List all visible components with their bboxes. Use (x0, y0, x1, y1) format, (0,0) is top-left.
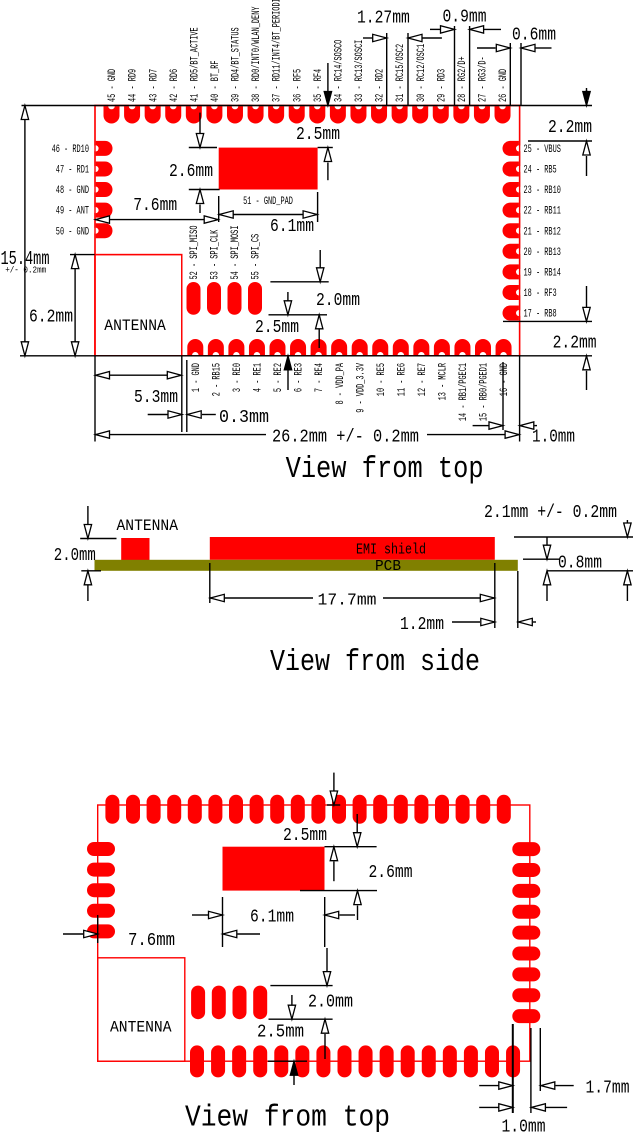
pad 39 top row (227, 106, 243, 123)
land pad bottom 4 view3 (253, 1045, 267, 1077)
antenna keepout box view1 (95, 255, 182, 356)
svg-text:2.0mm: 2.0mm (308, 992, 353, 1013)
land pad left 4 view3 (87, 904, 115, 918)
wire bottom edge line view1 (20, 355, 592, 357)
pad 52 SPI (187, 282, 201, 315)
land pad bottom 5 view3 (274, 1045, 288, 1077)
svg-text:10 - RE5: 10 - RE5 (376, 363, 388, 396)
svg-text:16 - GND: 16 - GND (499, 363, 511, 396)
land pad top 13 view3 (353, 795, 367, 824)
pad 12 bottom row (413, 339, 429, 355)
svg-text:2.2mm: 2.2mm (548, 117, 592, 138)
svg-text:30 - RC12/OSC1: 30 - RC12/OSC1 (416, 44, 428, 102)
pad 20 right column (503, 244, 519, 259)
SPI land pad 2 view3 (212, 986, 226, 1020)
svg-text:38 - RD0/INT0/WLAN_DENY: 38 - RD0/INT0/WLAN_DENY (251, 6, 263, 102)
svg-text:42 - RD6: 42 - RD6 (169, 69, 181, 102)
pad 43 top row (145, 106, 161, 123)
pad 14 bottom row (454, 339, 470, 355)
pad 45 top row (104, 106, 120, 123)
svg-text:11 - RE6: 11 - RE6 (396, 363, 408, 396)
pad 49 left column (96, 203, 113, 218)
svg-text:2.5mm: 2.5mm (255, 317, 299, 338)
svg-text:20 - RB13: 20 - RB13 (524, 247, 561, 259)
pad 41 top row (186, 106, 202, 123)
land pad right 2 view3 (512, 863, 540, 877)
svg-text:26 - GND: 26 - GND (498, 69, 510, 102)
dimension 2.2mm top right margin (528, 88, 592, 176)
land pad top 19 view3 (476, 795, 490, 824)
svg-text:54 - SPI_MOSI: 54 - SPI_MOSI (230, 226, 242, 280)
SPI land pad 1 view3 (191, 986, 205, 1020)
svg-text:3 - RE0: 3 - RE0 (232, 363, 244, 392)
svg-text:2.1mm +/- 0.2mm: 2.1mm +/- 0.2mm (484, 502, 617, 523)
land pad right 1 view3 (512, 842, 540, 856)
pad 31 top row (392, 106, 408, 123)
svg-text:18 - RF3: 18 - RF3 (524, 288, 557, 300)
svg-text:2 - RB15: 2 - RB15 (211, 363, 223, 396)
land pad left 5 view3 (87, 924, 115, 938)
svg-text:+/- 0.2mm: +/- 0.2mm (5, 265, 46, 276)
svg-text:29 - RD3: 29 - RD3 (436, 69, 448, 102)
svg-text:View from top: View from top (185, 1101, 390, 1134)
dimension 7.6mm left edge to centre pad (95, 195, 219, 223)
pad 24 right column (503, 161, 519, 176)
svg-text:ANTENNA: ANTENNA (110, 1019, 172, 1037)
dimension 1.0mm pin16 to right edge (473, 362, 575, 448)
land pad bottom 7 view3 (316, 1045, 330, 1077)
land pad right 6 view3 (512, 947, 540, 961)
land pad bottom 8 view3 (337, 1045, 351, 1077)
svg-text:34 - RC14/SOSCO: 34 - RC14/SOSCO (333, 40, 345, 102)
svg-text:40 - BT_RF: 40 - BT_RF (210, 61, 222, 103)
land pad bottom 14 view3 (464, 1045, 478, 1077)
land pad top 5 view3 (188, 795, 202, 824)
PCB bar (95, 560, 518, 571)
svg-text:48 - GND: 48 - GND (56, 185, 89, 197)
dimension 2.1mm overall height (484, 502, 633, 601)
svg-text:17.7mm: 17.7mm (318, 592, 377, 611)
svg-text:EMI shield: EMI shield (356, 543, 426, 559)
land pad top 10 view3 (291, 795, 305, 824)
land pad top 8 view3 (250, 795, 264, 824)
svg-text:ANTENNA: ANTENNA (117, 517, 179, 535)
land pad top 3 view3 (147, 795, 161, 824)
svg-text:53 - SPI_CLK: 53 - SPI_CLK (210, 229, 222, 279)
pad 21 right column (503, 223, 519, 238)
pad 42 top row (165, 106, 181, 123)
land pad top 11 view3 (311, 795, 325, 824)
land pad left 2 view3 (87, 863, 115, 877)
svg-text:14 - RB1/PGEC1: 14 - RB1/PGEC1 (458, 363, 470, 421)
pad 32 top row (371, 106, 387, 123)
svg-text:27 - RG3/D-: 27 - RG3/D- (478, 56, 490, 102)
dimension 2.5mm SPI pad to bottom edge (255, 292, 299, 390)
pad 6 bottom row (290, 339, 306, 355)
dimension 1.27mm pin pitch (357, 7, 442, 105)
land pad bottom 3 view3 (232, 1045, 246, 1077)
SPI land pad 3 view3 (233, 986, 247, 1020)
land pad bottom 13 view3 (443, 1045, 457, 1077)
pad 8 bottom row (331, 339, 347, 355)
svg-text:36 - RF5: 36 - RF5 (292, 69, 304, 102)
dimension 5.3mm antenna width (95, 356, 182, 442)
pad 27 top row (474, 106, 490, 123)
pad 48 left column (96, 182, 113, 197)
pad 54 SPI (228, 282, 242, 315)
land pad bottom 2 view3 (211, 1045, 225, 1077)
svg-text:55 - SPI_CS: 55 - SPI_CS (251, 234, 263, 280)
svg-text:1.7mm: 1.7mm (586, 1078, 630, 1099)
svg-text:41 - RD5/BT_ACTIVE: 41 - RD5/BT_ACTIVE (189, 27, 201, 102)
module outline redraw view1 (95, 106, 520, 356)
dimension 2.5mm SPI to bottom view3 (257, 995, 307, 1085)
svg-text:21 - RB12: 21 - RB12 (524, 226, 561, 238)
land pad right 4 view3 (512, 905, 540, 919)
svg-text:1 - GND: 1 - GND (191, 363, 203, 392)
dimension 2.2mm bottom right margin (503, 286, 597, 390)
svg-text:44 - RD9: 44 - RD9 (128, 69, 140, 102)
dimension 0.3mm antenna to pad 1 gap (148, 360, 269, 432)
svg-text:7.6mm: 7.6mm (133, 195, 177, 216)
pad 30 top row (412, 106, 428, 123)
centre GND land pad view3 (223, 847, 325, 891)
land pad top 4 view3 (167, 795, 181, 824)
svg-text:46 - RD10: 46 - RD10 (52, 144, 89, 156)
land pad top 20 view3 (497, 795, 511, 824)
pad 1 bottom row (187, 339, 203, 355)
svg-text:22 - RB11: 22 - RB11 (524, 206, 561, 218)
EMI shield block (210, 537, 495, 560)
svg-text:19 - RB14: 19 - RB14 (524, 267, 561, 279)
dimension 2.0mm SPI view3 (269, 948, 354, 1059)
antenna keepout box redraw view1 (95, 255, 182, 356)
pad 5 bottom row (270, 339, 286, 355)
pad 53 SPI (207, 282, 221, 315)
pad 2 bottom row (208, 339, 224, 355)
module outline (view from top #2) (98, 805, 530, 1061)
pad 38 top row (248, 106, 264, 123)
svg-text:33 - RC13/SOSCI: 33 - RC13/SOSCI (354, 40, 366, 102)
pad 55 SPI (248, 282, 262, 315)
svg-text:View from side: View from side (270, 645, 480, 680)
land pad top 1 view3 (105, 795, 119, 824)
dimension 1.7mm view3 (479, 1024, 629, 1113)
dimension 0.9mm pad width (430, 7, 501, 106)
svg-text:6.1mm: 6.1mm (270, 216, 314, 237)
land pad right 7 view3 (512, 967, 540, 981)
svg-text:52 - SPI_MISO: 52 - SPI_MISO (189, 226, 201, 280)
pad 4 bottom row (249, 339, 265, 355)
svg-text:47 - RD1: 47 - RD1 (56, 165, 89, 177)
svg-text:1.2mm: 1.2mm (400, 614, 444, 635)
land pad top 15 view3 (394, 795, 408, 824)
dimension 2.0mm SPI pad height (269, 250, 361, 348)
land pad left 3 view3 (87, 883, 115, 897)
land pad bottom 1 view3 (190, 1045, 204, 1077)
land pad top 12 view3 (332, 795, 346, 824)
land pad right 8 view3 (512, 988, 540, 1002)
pad 11 bottom row (393, 339, 409, 355)
svg-text:50 - GND: 50 - GND (56, 226, 89, 238)
land pad bottom 12 view3 (422, 1045, 436, 1077)
pad 37 top row (268, 106, 284, 123)
dimension 7.6mm view3 (63, 915, 260, 951)
svg-text:0.6mm: 0.6mm (512, 24, 556, 45)
dimension 0.8mm PCB thickness (523, 537, 633, 601)
land pad top 7 view3 (229, 795, 243, 824)
svg-text:2.6mm: 2.6mm (169, 161, 213, 182)
svg-text:1.27mm: 1.27mm (357, 7, 410, 28)
svg-text:31 - RC15/OSC2: 31 - RC15/OSC2 (395, 44, 407, 102)
pad 16 bottom row (496, 339, 512, 355)
land pad right 9 view3 (512, 1009, 540, 1023)
svg-text:0.3mm: 0.3mm (219, 407, 269, 428)
pad 10 bottom row (372, 339, 388, 355)
svg-text:1.0mm: 1.0mm (502, 1117, 546, 1134)
svg-text:23 - RB10: 23 - RB10 (524, 185, 561, 197)
antenna keepout box view3 (98, 958, 185, 1061)
svg-text:7 - RE4: 7 - RE4 (314, 363, 326, 392)
svg-text:51 - GND_PAD: 51 - GND_PAD (243, 196, 293, 208)
wire top edge line view1 (22, 105, 593, 107)
svg-text:26.2mm +/- 0.2mm: 26.2mm +/- 0.2mm (272, 427, 419, 448)
svg-text:2.5mm: 2.5mm (257, 1022, 304, 1043)
land pad top 17 view3 (435, 795, 449, 824)
svg-text:25 - VBUS: 25 - VBUS (524, 144, 561, 156)
pad 44 top row (124, 106, 140, 123)
pad 25 right column (503, 141, 519, 156)
pad 46 left column (96, 141, 113, 156)
land pad right 5 view3 (512, 926, 540, 940)
svg-text:2.5mm: 2.5mm (296, 124, 340, 145)
antenna block side view (121, 538, 149, 560)
dimension 0.6mm edge clearance (477, 24, 556, 105)
land pad left 1 view3 (87, 842, 115, 856)
SPI land pad 4 view3 (253, 986, 267, 1020)
svg-text:5 - RE2: 5 - RE2 (273, 363, 285, 392)
svg-text:2.2mm: 2.2mm (553, 333, 597, 354)
dimension 2.5mm top view3 (283, 773, 340, 882)
svg-text:2.5mm: 2.5mm (283, 825, 327, 846)
pad 33 top row (350, 106, 366, 123)
land pad bottom 6 view3 (295, 1045, 309, 1077)
pad 50 left column (96, 223, 113, 238)
svg-text:PCB: PCB (375, 559, 401, 575)
svg-text:4 - RE1: 4 - RE1 (253, 363, 265, 392)
pad 3 bottom row (228, 339, 244, 355)
pad 34 top row (330, 106, 346, 123)
pad 9 bottom row (352, 339, 368, 355)
svg-text:24 - RB5: 24 - RB5 (524, 165, 557, 177)
svg-text:17 - RB8: 17 - RB8 (524, 309, 557, 321)
svg-text:13 - MCLR: 13 - MCLR (438, 363, 450, 401)
svg-text:39 - RD4/BT_STATUS: 39 - RD4/BT_STATUS (231, 27, 243, 102)
pad 13 bottom row (434, 339, 450, 355)
svg-text:12 - RE7: 12 - RE7 (417, 363, 429, 396)
land pad bottom 16 view3 (506, 1045, 520, 1077)
dimension 2.6mm centre pad height (169, 113, 220, 213)
module outline (view from top #1) (95, 106, 520, 356)
pad 40 top row (206, 106, 222, 123)
pad 51 GND_PAD centre (219, 148, 318, 190)
pad 17 right column (503, 306, 519, 321)
svg-text:ANTENNA: ANTENNA (104, 317, 166, 335)
dimension 26.2mm module width (95, 356, 520, 448)
dimension 2.0mm side height (54, 506, 117, 601)
land pad bottom 15 view3 (485, 1045, 499, 1077)
land pad bottom 9 view3 (359, 1045, 373, 1077)
dimension 6.2mm antenna height (29, 255, 95, 356)
svg-text:9 - VDD_3.3V: 9 - VDD_3.3V (355, 363, 367, 413)
land pad right 3 view3 (512, 884, 540, 898)
land pad bottom 10 view3 (380, 1045, 394, 1077)
dimension 6.1mm view3 (192, 897, 355, 947)
dimension 1.2mm shield to PCB edge (400, 571, 536, 635)
dimension 2.6mm view3 (300, 814, 413, 920)
svg-text:6 - RE3: 6 - RE3 (294, 363, 306, 392)
land pad top 6 view3 (208, 795, 222, 824)
svg-text:43 - RD7: 43 - RD7 (148, 69, 160, 102)
pad 19 right column (503, 264, 519, 279)
land pad top 16 view3 (414, 795, 428, 824)
svg-text:32 - RD2: 32 - RD2 (375, 69, 387, 102)
svg-text:2.0mm: 2.0mm (316, 290, 360, 311)
svg-text:1.0mm: 1.0mm (532, 427, 575, 448)
land pad top 9 view3 (270, 795, 284, 824)
svg-text:8 - VDD_PA: 8 - VDD_PA (335, 363, 347, 405)
svg-text:15 - RB0/PGED1: 15 - RB0/PGED1 (479, 363, 491, 421)
land pad top 2 view3 (126, 795, 140, 824)
pad 35 top row (309, 106, 325, 123)
pad 7 bottom row (311, 339, 327, 355)
svg-text:7.6mm: 7.6mm (128, 930, 175, 951)
svg-text:2.6mm: 2.6mm (369, 862, 413, 883)
pad 22 right column (503, 203, 519, 218)
svg-text:5.3mm: 5.3mm (134, 387, 178, 408)
svg-text:49 - ANT: 49 - ANT (56, 206, 89, 218)
svg-text:2.0mm: 2.0mm (54, 545, 96, 566)
pad 23 right column (503, 182, 519, 197)
dimension 15.4mm module height (1, 106, 50, 356)
pad 47 left column (96, 161, 113, 176)
pad 36 top row (289, 106, 305, 123)
svg-text:0.9mm: 0.9mm (443, 7, 487, 28)
svg-text:6.2mm: 6.2mm (29, 307, 73, 328)
svg-text:45 - GND: 45 - GND (107, 69, 119, 102)
pad 18 right column (503, 285, 519, 300)
svg-text:35 - RF4: 35 - RF4 (313, 69, 325, 102)
land pad top 14 view3 (373, 795, 387, 824)
dimension 6.1mm centre pad width (219, 192, 318, 237)
svg-text:37 - RD11/INT4/BT_PERIODIC: 37 - RD11/INT4/BT_PERIODIC (272, 0, 284, 102)
pad 29 top row (433, 106, 449, 123)
pad 28 top row (453, 106, 469, 123)
pad 15 bottom row (475, 339, 491, 355)
svg-text:28 - RG2/D+: 28 - RG2/D+ (457, 56, 469, 102)
svg-text:6.1mm: 6.1mm (250, 907, 294, 928)
dimension 1.0mm view3 (479, 1028, 567, 1134)
svg-text:View from top: View from top (286, 452, 484, 487)
dimension 2.5mm top edge to centre pad (296, 63, 340, 180)
pad 26 top row (495, 106, 511, 123)
land pad bottom 11 view3 (401, 1045, 415, 1077)
dimension 17.7mm shield length (210, 563, 495, 628)
land pad top 18 view3 (456, 795, 470, 824)
